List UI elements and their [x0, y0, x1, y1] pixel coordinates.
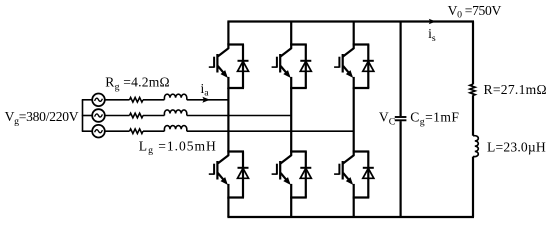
wire Q1 loop bottom	[227, 87, 244, 89]
wire left neutral bus	[82, 100, 84, 131]
voltage source Vg phase b	[92, 109, 105, 122]
diode D3	[300, 45, 311, 89]
wire top dc rail	[227, 20, 474, 22]
wire leg c midsection	[353, 88, 355, 152]
wire lower loop to bottom rail leg a	[227, 198, 229, 218]
wire lower loop to bottom rail leg c	[353, 198, 355, 218]
wire leg b midsection	[290, 88, 292, 152]
wire source to resistor phase a	[105, 99, 130, 101]
capacitor Cg	[395, 117, 407, 120]
wire bus to source phase b	[82, 115, 92, 117]
wire Q6 loop top	[353, 150, 370, 152]
wire source to resistor phase c	[105, 130, 130, 132]
wire bus to source phase c	[82, 130, 92, 132]
wire L to bottom rail	[472, 157, 474, 217]
diode D5	[363, 45, 374, 89]
current arrow i_s	[429, 19, 436, 25]
wire cap branch upper	[400, 22, 402, 117]
transistor Q6	[334, 151, 354, 199]
wire inductor to bridge phase c	[187, 130, 354, 132]
inductor Lg phase c	[164, 126, 186, 132]
voltage source Vg phase a	[92, 94, 105, 107]
wire inductor to bridge phase a	[187, 99, 229, 101]
current arrow i_a	[202, 97, 210, 103]
wire cap branch lower	[400, 121, 402, 217]
wire lower loop to bottom rail leg b	[290, 198, 292, 218]
wire top rail to upper loop leg a	[227, 22, 229, 45]
resistor R	[470, 84, 475, 95]
inductor L	[473, 136, 478, 157]
wire bottom dc rail	[227, 216, 474, 218]
wire resistor to inductor phase c	[143, 130, 164, 132]
diode D6	[363, 152, 374, 198]
transistor Q4	[272, 151, 292, 199]
wire resistor to inductor phase b	[143, 115, 164, 117]
svg-text:R=27.1mΩ: R=27.1mΩ	[484, 82, 547, 97]
wire right branch upper	[472, 22, 474, 85]
wire between R and L	[472, 96, 474, 136]
wire top rail to upper loop leg b	[290, 22, 292, 45]
wire Q1 loop top	[227, 43, 244, 45]
wire Q3 loop bottom	[290, 87, 307, 89]
transistor Q3	[272, 44, 292, 90]
diode D1	[238, 45, 249, 89]
wire Q3 loop top	[290, 43, 307, 45]
resistor Rg phase b	[130, 113, 144, 118]
wire top rail to upper loop leg c	[353, 22, 355, 45]
resistor Rg phase a	[130, 98, 144, 103]
wire Q4 loop top	[290, 150, 307, 152]
diode D4	[300, 152, 311, 198]
transistor Q1	[209, 44, 229, 90]
wire Q5 loop bottom	[353, 87, 370, 89]
transistor Q2	[209, 151, 229, 199]
svg-text:L=23.0µH: L=23.0µH	[487, 139, 546, 154]
wire Q5 loop top	[353, 43, 370, 45]
wire source to resistor phase b	[105, 115, 130, 117]
wire bus to source phase a	[82, 99, 92, 101]
wire Q6 loop bottom	[353, 196, 370, 198]
transistor Q5	[334, 44, 354, 90]
diode D2	[238, 152, 249, 198]
voltage source Vg phase c	[92, 125, 105, 138]
wire Q2 loop top	[227, 150, 244, 152]
wire Q4 loop bottom	[290, 196, 307, 198]
inductor Lg phase a	[164, 94, 186, 100]
resistor Rg phase c	[130, 129, 144, 134]
wire Q2 loop bottom	[227, 196, 244, 198]
inductor Lg phase b	[164, 110, 186, 116]
wire leg a midsection	[227, 88, 229, 152]
wire resistor to inductor phase a	[143, 99, 164, 101]
wire inductor to bridge phase b	[187, 115, 291, 117]
